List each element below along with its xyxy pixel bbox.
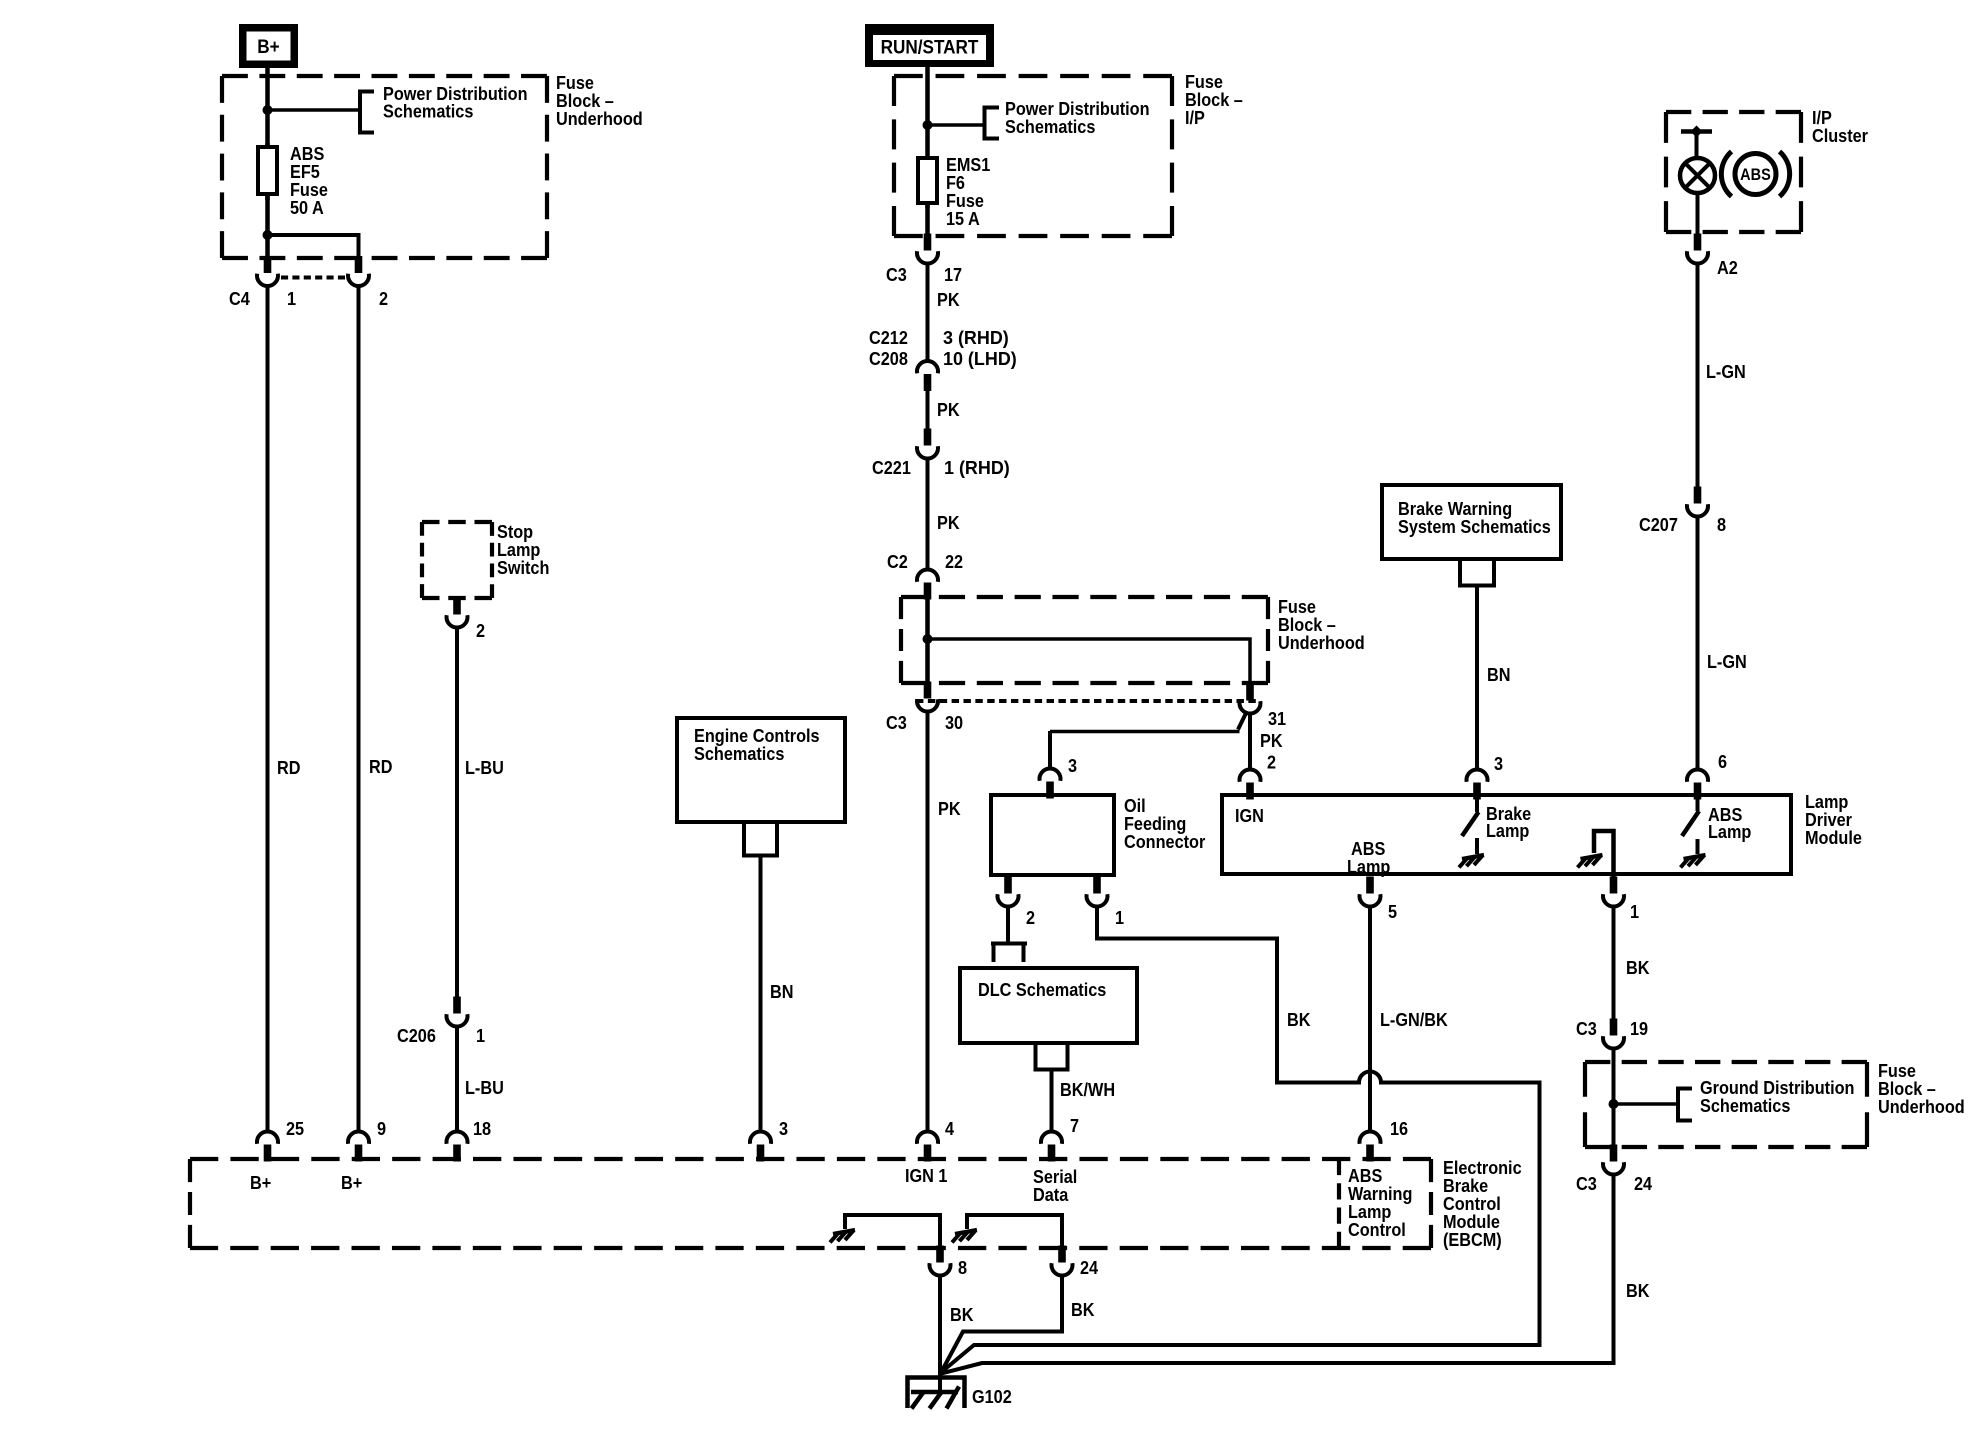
label abs warning lamp control <box>1348 1165 1412 1240</box>
svg-text:9: 9 <box>377 1118 386 1139</box>
page ref bracket <box>1458 559 1496 586</box>
svg-text:L-GN: L-GN <box>1706 361 1746 382</box>
EBCM box <box>190 1159 1431 1248</box>
wire to ground <box>967 1215 1062 1246</box>
junction <box>263 105 273 115</box>
svg-text:L-GN: L-GN <box>1707 651 1747 672</box>
svg-text:G102: G102 <box>972 1386 1012 1407</box>
label fuse block underhood 3 <box>1878 1060 1965 1117</box>
connector C3 pin 30 <box>917 682 938 712</box>
fuse block underhood box 2 <box>901 597 1268 683</box>
label fuse EMS1 F6 15A <box>946 154 991 229</box>
bus bar <box>1681 129 1712 134</box>
svg-text:Switch: Switch <box>497 557 549 578</box>
svg-text:B+: B+ <box>341 1172 362 1193</box>
wire <box>268 108 361 112</box>
label ABS lamp right <box>1708 804 1751 842</box>
svg-text:Module: Module <box>1805 827 1862 848</box>
svg-text:10 (LHD): 10 (LHD) <box>943 349 1017 369</box>
svg-text:3: 3 <box>1494 753 1503 774</box>
wire <box>1614 1102 1679 1106</box>
brake lamp switch <box>1462 797 1479 854</box>
connector C4 pin 1 <box>257 256 278 286</box>
wire BN <box>1475 585 1479 770</box>
svg-text:C3: C3 <box>1576 1018 1597 1039</box>
svg-text:2: 2 <box>1026 907 1035 928</box>
label oil feeding connector <box>1124 795 1206 852</box>
page ref bracket <box>1678 1089 1692 1121</box>
wire <box>925 203 930 237</box>
svg-text:L-BU: L-BU <box>465 1077 504 1098</box>
connector C4 pin 2 <box>348 256 369 286</box>
svg-text:8: 8 <box>1717 514 1726 535</box>
fuse block I/P box <box>894 76 1172 236</box>
wire BK/WH <box>1050 1069 1054 1132</box>
wire BK to G102 <box>941 1174 1614 1374</box>
label power distribution schematics <box>383 83 528 122</box>
svg-text:PK: PK <box>937 399 960 420</box>
svg-text:C207: C207 <box>1639 514 1678 535</box>
svg-text:18: 18 <box>473 1118 491 1139</box>
label ABS lamp left <box>1347 838 1390 877</box>
label EBCM <box>1443 1157 1522 1250</box>
junction <box>263 230 273 240</box>
wire PK <box>926 711 930 1132</box>
wire <box>1696 193 1700 234</box>
svg-text:1 (RHD): 1 (RHD) <box>944 458 1010 478</box>
svg-text:RD: RD <box>277 757 300 778</box>
svg-text:C221: C221 <box>872 457 911 478</box>
fuse EMS1 F6 15A <box>918 158 937 208</box>
svg-text:31: 31 <box>1268 708 1286 729</box>
svg-text:24: 24 <box>1080 1257 1098 1278</box>
svg-text:C212: C212 <box>869 327 908 348</box>
connector EBCM pin 25 <box>257 1131 278 1161</box>
EBCM partition <box>1337 1159 1341 1248</box>
svg-text:2: 2 <box>476 620 485 641</box>
connector EBCM pin 24 <box>1052 1246 1073 1276</box>
svg-text:15 A: 15 A <box>946 208 980 229</box>
wire <box>265 194 270 260</box>
wire PK <box>926 263 930 362</box>
wire RD <box>357 285 361 1132</box>
stop lamp switch box <box>422 522 492 598</box>
connector LDM pin 1 <box>1603 877 1624 907</box>
svg-text:C4: C4 <box>229 288 250 309</box>
svg-text:Schematics: Schematics <box>383 101 473 122</box>
wire <box>925 596 930 684</box>
fuse block underhood box <box>222 76 547 258</box>
label brake lamp <box>1486 803 1532 841</box>
ground distribution box <box>1585 1062 1867 1147</box>
label fuse block underhood 2 <box>1278 596 1365 653</box>
connector A2 <box>1687 234 1708 264</box>
svg-text:RUN/START: RUN/START <box>881 35 980 57</box>
svg-text:16: 16 <box>1390 1118 1408 1139</box>
svg-text:L-BU: L-BU <box>465 757 504 778</box>
connector C3 pin 17 <box>917 234 938 264</box>
svg-text:Schematics: Schematics <box>1700 1095 1790 1116</box>
wire BN <box>759 855 763 1132</box>
ABS warning lamp <box>1680 158 1715 193</box>
ABS indicator emblem <box>1721 152 1789 197</box>
connector oil pin 2 <box>998 877 1019 907</box>
svg-text:BK: BK <box>950 1304 974 1325</box>
ground <box>952 1230 977 1242</box>
wire <box>1612 1048 1616 1146</box>
svg-text:50 A: 50 A <box>290 197 324 218</box>
connector C3 pin 24 <box>1603 1145 1624 1175</box>
lamp driver module box <box>1222 795 1791 874</box>
label stop lamp switch <box>497 521 549 578</box>
wire <box>928 123 986 127</box>
page ref bracket <box>360 92 374 133</box>
ground <box>1578 855 1603 867</box>
wire BK <box>941 1275 1062 1373</box>
svg-text:1: 1 <box>476 1025 485 1046</box>
label lamp driver module <box>1805 791 1862 848</box>
label brake warning system <box>1398 498 1551 537</box>
svg-text:4: 4 <box>945 1118 954 1139</box>
svg-text:(EBCM): (EBCM) <box>1443 1229 1502 1250</box>
svg-text:Lamp: Lamp <box>1486 820 1529 841</box>
connector LDM pin 3 <box>1467 769 1488 799</box>
svg-text:PK: PK <box>937 289 960 310</box>
brake warning system box <box>1382 485 1561 559</box>
connector EBCM pin 18 <box>447 1131 468 1161</box>
page ref bracket <box>744 822 777 856</box>
connector C3 pin 19 <box>1603 1019 1624 1049</box>
svg-text:7: 7 <box>1070 1115 1079 1136</box>
wire to ground <box>845 1215 940 1246</box>
svg-text:C208: C208 <box>869 348 908 369</box>
connector EBCM pin 3 <box>750 1131 771 1161</box>
junction diamond <box>1691 126 1703 138</box>
connector EBCM pin 16 <box>1359 1131 1380 1161</box>
wire branch to oil connector <box>1050 711 1247 769</box>
svg-text:2: 2 <box>379 288 388 309</box>
svg-text:C206: C206 <box>397 1025 436 1046</box>
svg-text:19: 19 <box>1630 1018 1648 1039</box>
svg-text:5: 5 <box>1388 901 1397 922</box>
i/p cluster box <box>1666 112 1801 232</box>
svg-text:DLC Schematics: DLC Schematics <box>978 979 1106 1000</box>
connector oil pin 1 <box>1087 877 1108 907</box>
power node RUN/START <box>865 24 994 67</box>
wire <box>925 66 930 162</box>
wire PK <box>926 388 930 430</box>
svg-text:30: 30 <box>945 712 963 733</box>
wire <box>1695 132 1699 161</box>
svg-text:BK: BK <box>1071 1299 1095 1320</box>
svg-text:Lamp: Lamp <box>1708 821 1751 842</box>
svg-text:C2: C2 <box>887 551 908 572</box>
svg-text:C3: C3 <box>886 264 907 285</box>
svg-text:Data: Data <box>1033 1184 1069 1205</box>
wire to internal ground <box>1594 831 1614 877</box>
fuse ABS EF5 50A <box>258 143 277 200</box>
label power distribution schematics <box>1005 98 1150 137</box>
junction <box>923 120 933 130</box>
connector LDM pin 6 <box>1687 769 1708 799</box>
wire <box>1006 906 1010 944</box>
svg-text:BK: BK <box>1626 1280 1650 1301</box>
svg-text:C3: C3 <box>886 712 907 733</box>
power node B+ <box>239 24 298 68</box>
wire <box>928 639 1251 684</box>
wire <box>265 66 270 150</box>
connector line C3 30-31 <box>916 699 1256 703</box>
svg-text:1: 1 <box>1115 907 1124 928</box>
svg-text:25: 25 <box>286 1118 304 1139</box>
label ground distribution schematics <box>1700 1077 1854 1116</box>
wire <box>1248 713 1252 770</box>
svg-text:A2: A2 <box>1717 257 1738 278</box>
wire L-BU <box>455 1026 459 1132</box>
svg-text:2: 2 <box>1267 752 1276 773</box>
wire RD <box>266 285 270 1132</box>
wire <box>268 235 359 260</box>
wire BK <box>1612 906 1616 1020</box>
svg-text:6: 6 <box>1718 751 1727 772</box>
svg-text:B+: B+ <box>250 1172 271 1193</box>
connector C221 pin 1 <box>917 429 938 459</box>
junction <box>923 634 933 644</box>
engine controls schematics box <box>677 718 845 822</box>
wire BK long route <box>941 906 1540 1373</box>
label engine controls schematics <box>694 725 820 764</box>
svg-text:BK: BK <box>1626 957 1650 978</box>
svg-text:BN: BN <box>770 981 793 1002</box>
svg-text:Connector: Connector <box>1124 831 1206 852</box>
svg-text:Control: Control <box>1348 1219 1406 1240</box>
label fuse block underhood <box>556 72 643 129</box>
svg-text:RD: RD <box>369 756 392 777</box>
svg-text:Schematics: Schematics <box>694 743 784 764</box>
wire L-GN/BK <box>1368 906 1372 1132</box>
svg-text:Underhood: Underhood <box>556 108 643 129</box>
connector C2 pin 22 <box>917 569 938 599</box>
svg-text:PK: PK <box>938 798 961 819</box>
connector C206 pin 1 <box>447 997 468 1027</box>
svg-text:L-GN/BK: L-GN/BK <box>1380 1009 1448 1030</box>
svg-text:System Schematics: System Schematics <box>1398 516 1551 537</box>
oil feeding connector box <box>991 795 1114 875</box>
label fuse block I/P <box>1185 71 1243 128</box>
svg-text:3 (RHD): 3 (RHD) <box>943 328 1009 348</box>
wire PK <box>926 458 930 570</box>
svg-text:22: 22 <box>945 551 963 572</box>
svg-text:Underhood: Underhood <box>1878 1096 1965 1117</box>
svg-text:24: 24 <box>1634 1173 1652 1194</box>
connector stop lamp switch pin 2 <box>447 598 468 628</box>
page ref bracket <box>1034 1043 1070 1070</box>
label i/p cluster <box>1812 107 1868 146</box>
ground <box>1681 855 1706 867</box>
connector LDM pin 2 <box>1239 769 1260 799</box>
junction <box>1609 1099 1619 1109</box>
svg-text:3: 3 <box>779 1118 788 1139</box>
wire BK <box>938 1275 942 1374</box>
svg-text:BN: BN <box>1487 664 1510 685</box>
ground <box>1459 855 1484 867</box>
connector C207 pin 8 <box>1687 487 1708 517</box>
svg-text:Schematics: Schematics <box>1005 116 1095 137</box>
connector line C4 <box>281 276 345 280</box>
svg-text:Underhood: Underhood <box>1278 632 1365 653</box>
wire L-GN <box>1696 516 1700 770</box>
svg-text:ABS: ABS <box>1740 166 1771 184</box>
label serial data <box>1033 1166 1077 1205</box>
svg-text:BK: BK <box>1287 1009 1311 1030</box>
svg-text:B+: B+ <box>257 35 279 57</box>
ground G102 <box>908 1372 965 1409</box>
svg-text:PK: PK <box>1260 730 1283 751</box>
label fuse ABS EF5 50A <box>290 143 328 218</box>
svg-text:1: 1 <box>1630 901 1639 922</box>
svg-text:PK: PK <box>937 512 960 533</box>
connector EBCM pin 4 <box>917 1131 938 1161</box>
connector C212/C208 <box>917 361 938 391</box>
connector EBCM pin 7 <box>1041 1131 1062 1161</box>
svg-text:17: 17 <box>944 264 962 285</box>
svg-text:Cluster: Cluster <box>1812 125 1868 146</box>
connector EBCM pin 9 <box>348 1131 369 1161</box>
svg-text:1: 1 <box>287 288 296 309</box>
page ref bracket <box>985 108 1000 139</box>
svg-text:3: 3 <box>1068 755 1077 776</box>
ground <box>830 1230 855 1242</box>
connector oil pin 3 <box>1040 768 1061 798</box>
svg-text:C3: C3 <box>1576 1173 1597 1194</box>
svg-text:I/P: I/P <box>1185 107 1205 128</box>
connector LDM pin 5 <box>1359 877 1380 907</box>
connector pin 31 <box>1239 684 1260 714</box>
DLC schematics box <box>960 968 1137 1043</box>
wire L-GN <box>1696 263 1700 488</box>
connector EBCM pin 8 <box>930 1246 951 1276</box>
svg-text:Lamp: Lamp <box>1347 856 1390 877</box>
svg-text:8: 8 <box>958 1257 967 1278</box>
wire L-BU <box>455 627 459 1000</box>
svg-text:IGN 1: IGN 1 <box>905 1165 948 1186</box>
page ref bracket <box>991 944 1027 963</box>
svg-text:BK/WH: BK/WH <box>1060 1079 1115 1100</box>
svg-text:IGN: IGN <box>1235 805 1264 826</box>
abs lamp switch <box>1682 797 1699 854</box>
